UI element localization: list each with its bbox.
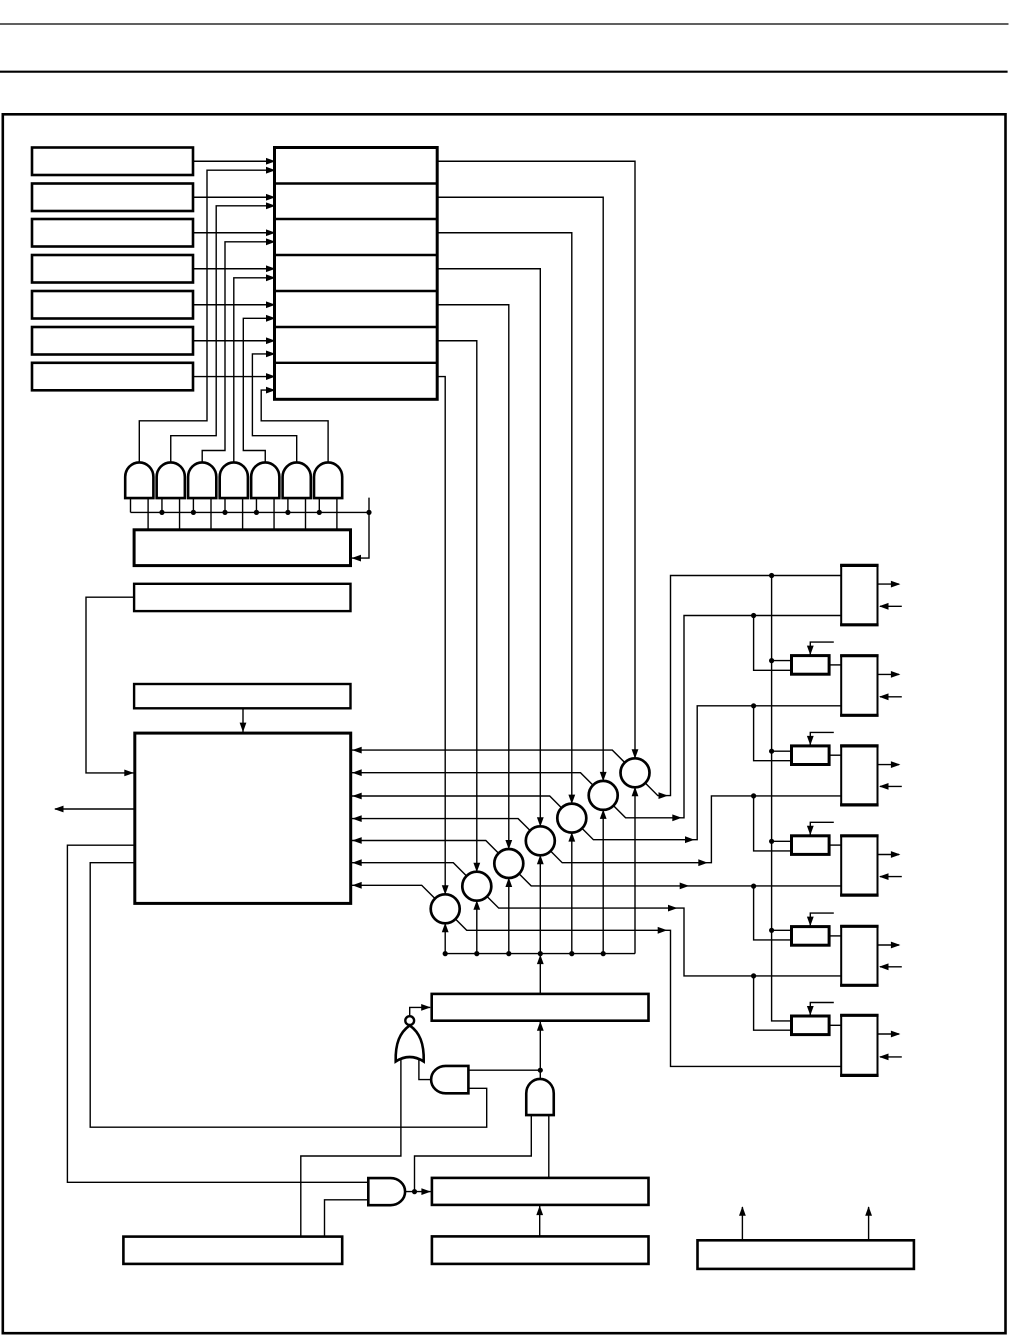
wire node C7 to block D [351,750,625,762]
wire RB row1 output cascade to node C7 [437,161,635,757]
comparator node C4 [526,826,555,855]
comparator node C3 [494,849,523,878]
input register box IN2 [32,184,193,212]
driver box B3 thick top [840,744,879,747]
driver box B5 thick top [840,925,879,928]
arrow box B4 output [891,851,901,858]
junction strobe bus / G3 [191,510,196,515]
arrow into RB row2 [266,194,276,201]
box B6 input wire [880,1056,902,1058]
wire RB row5 output cascade to node C3 [437,305,509,848]
wire V2 drop to latch L5 [754,886,792,940]
arrow into node C7 bottom [632,787,639,797]
and gate G5 [251,462,279,498]
arrow into block D left [124,770,134,777]
driver box B6 [841,1015,877,1075]
wire latch L5 to box B5 [829,935,841,937]
wire node C3 to block D [351,841,499,854]
driver box B6 thick bottom [840,1074,879,1077]
horizontal rule top [0,23,1009,25]
arrow into RB row4 [266,265,276,272]
junction G4 output [412,1189,417,1194]
wire gate G6 output up to RB row6 [252,354,296,463]
box B4 output wire [878,854,900,856]
wire G3 input A to strobe bus [192,498,194,512]
latch L6 strobe stub [810,1003,834,1016]
arrow box B3 output [891,761,901,768]
wire latch L6 to box B6 [829,1024,841,1026]
wire node C5 output riser [582,706,841,840]
wire IN2 to RB row2 [193,196,275,198]
arrow box B4 input [879,873,889,880]
arrow latch L3 strobe [807,736,814,746]
arrow latch L4 strobe [807,826,814,836]
wire G3 input B to decode box A [210,498,212,530]
wire G2 input B to decode box A [179,498,181,530]
wire gate G1 output up to RB row1 [139,170,274,462]
wire box E up to bus [539,955,541,994]
register block row divider 1 [275,182,438,184]
box B6 output wire [878,1033,900,1035]
arrow on node C6 output [672,814,682,821]
arrow on node C2 output [668,905,678,912]
wire G4 output [405,1191,431,1193]
wire G4 input 2 from box H [325,1200,369,1237]
junction bus / C5 [569,951,574,956]
and gate G1 [125,462,153,498]
arrow latch L2 strobe [807,646,814,656]
comparator node C1 [431,894,460,923]
wire gate G3 output up to RB row3 [202,242,274,463]
arrow into block D from C6 [352,769,362,776]
box B2 input wire [880,696,902,698]
wire G4 input B to decode box A [242,498,244,530]
latch L6 [792,1016,830,1035]
status box G [432,1236,649,1264]
wire G2 input 1 [468,1069,540,1071]
reference box H [123,1237,342,1264]
nor gate N1 body [396,1025,424,1061]
arrow into node C5 top [568,795,575,805]
register block row divider 6 [275,362,438,364]
driver box B3 [841,746,877,805]
arrow into node C2 bottom [473,900,480,910]
arrow on node C4 output [698,859,708,866]
arrow into RB row3 [266,229,276,236]
wire gate G2 output up to RB row2 [171,206,275,463]
wire V2 drop to latch L2 [754,616,792,671]
block D output wire left [55,808,135,810]
wire IN7 to RB row7 [193,376,275,378]
junction V1 / latch L2 [769,658,774,663]
junction strobe bus / select stub [366,510,371,515]
driver box B1 thick bottom [840,623,879,626]
wire node C1 to block D [351,885,435,898]
junction bus / C2 [474,951,479,956]
wire bus up to node C6 [602,811,604,954]
wire IN6 to RB row6 [193,340,275,342]
arrow into RB row6 [266,337,276,344]
wire latch L3 to box B3 [829,754,841,756]
arrow into block D from C3 [352,837,362,844]
junction bus / C4 [538,951,543,956]
box B5 output wire [878,944,900,946]
wire box B to block D input [86,597,134,773]
wire node C4 output riser [551,796,842,863]
arrow box G into box F [536,1206,543,1216]
driver box B2 [841,656,877,716]
wire G7 input B to decode box A [336,498,338,530]
arrow into node C2 top [473,863,480,873]
wire G4 input A to strobe bus [224,498,226,512]
arrow G4 into box F [421,1188,431,1195]
input register box IN5 [32,291,193,319]
box B4 input wire [880,876,902,878]
wire V2 drop to latch L3 [754,706,792,761]
arrow on node C1 output [658,927,668,934]
and gate G3 [188,462,216,498]
wire bus up to node C3 [508,879,510,954]
register block row divider 5 [275,326,438,328]
driver box B5 thick bottom [840,984,879,987]
wire RB row6 output cascade to node C2 [437,341,477,871]
arrow box B2 output [891,671,901,678]
wire IN1 to RB row1 [193,160,275,162]
control logic block D [135,733,351,903]
wire gate G5 output up to RB row5 [243,318,274,462]
arrow on node C5 output [685,836,695,843]
driver box B2 thick bottom [840,714,879,717]
wire bus up to node C5 [571,834,573,954]
wire G1 input A to strobe bus [130,498,132,512]
driver box B2 thick top [840,654,879,657]
wire G6 input B to decode box A [305,498,307,530]
distribution bus wire [445,953,635,955]
arrow into node C1 bottom [442,923,449,933]
junction V1 / latch L5 [769,928,774,933]
arrow into node C6 bottom [600,809,607,819]
arrow into RB row6 lower [266,351,276,358]
and gate G3 [526,1079,554,1115]
arrow into node C3 bottom [505,878,512,888]
wire V2 drop to latch L6 [754,976,792,1030]
arrow into RB row1 lower [266,167,276,174]
arrow box E into bus [537,955,544,965]
arrow into RB row5 [266,301,276,308]
input register box IN7 [32,363,193,391]
wire IN4 to RB row4 [193,268,275,270]
latch L2 [792,656,830,675]
wire V1 to latch L3 [772,750,792,752]
strobe bus wire [131,511,370,513]
arrow latch L5 strobe [807,917,814,927]
box I output wire 1 [741,1207,743,1240]
nor gate N1 bubble [405,1016,414,1025]
wire RB row7 output cascade to node C1 [437,377,445,894]
junction V1 / latch L4 [769,839,774,844]
arrow block D output left [54,806,64,813]
input register box IN3 [32,219,193,247]
arrow into RB row4 lower [266,274,276,281]
junction V2 segment 2 [751,703,756,708]
arrow into RB row5 lower [266,315,276,322]
wire latch L4 to box B4 [829,844,841,846]
input register box IN1 [32,148,193,176]
wire latch L2 to box B2 [829,664,841,666]
driver box B4 thick bottom [840,893,879,896]
box B2 output wire [878,673,900,675]
wire node C1 output riser [455,919,841,1066]
wire gate G7 output up to RB row7 [261,390,328,462]
arrow box B1 input [879,603,889,610]
arrow box I output 2 [865,1206,872,1216]
arrow into node C3 top [505,840,512,850]
wire G6 input A to strobe bus [287,498,289,512]
latch L2 strobe stub [810,642,834,655]
wire G3 output to box E [539,1022,541,1079]
wire IN3 to RB row3 [193,232,275,234]
arrow into node C6 top [600,772,607,782]
arrow box B5 output [891,942,901,949]
box B3 input wire [880,785,902,787]
output box I [698,1240,914,1269]
wire block D to gate G4 input [67,845,368,1182]
box B3 output wire [878,764,900,766]
latch L5 strobe stub [810,913,834,926]
wire gate G4 output up to RB row4 [234,278,275,463]
junction bus / C1 [443,951,448,956]
wire RB row2 output cascade to node C6 [437,197,603,780]
wire block D to gate G2 input [90,863,487,1127]
arrow on node C7 output [659,792,669,799]
driver box B5 [841,926,877,985]
box I output wire 2 [868,1207,870,1240]
and gate G7 [314,462,342,498]
arrow into block D from C4 [352,815,362,822]
wire V1 to latch L2 [772,660,792,662]
select line V1 [772,576,792,1021]
driver box B1 thick top [840,564,879,567]
wire bus up to node C2 [476,902,478,954]
register file block RB outline [275,148,438,400]
wire G5 input A to strobe bus [255,498,257,512]
arrow latch L6 strobe [807,1006,814,1016]
input register box IN6 [32,327,193,355]
wire bus up to node C4 [539,856,541,953]
arrow into RB row7 [266,373,276,380]
arrow into RB row1 [266,158,276,165]
horizontal rule 2 [0,71,1008,73]
wire node C6 to block D [351,773,593,785]
wire box G up to box F [539,1206,541,1237]
junction V2 segment 1 [751,613,756,618]
junction V2 segment 3 [751,793,756,798]
arrow box B6 output [891,1031,901,1038]
wire RB row3 output cascade to node C5 [437,233,572,803]
and gate G2 [157,462,185,498]
control box B [134,584,350,611]
register block row divider 3 [275,254,438,256]
comparator node C5 [557,804,586,833]
junction V1 start [769,573,774,578]
arrow into box A [352,555,362,562]
latch L4 strobe stub [810,822,834,835]
arrow into RB row7 lower [266,387,276,394]
wire G3 input 2 from box F [548,1115,550,1178]
wire G7 input A to strobe bus [318,498,320,512]
register block row divider 4 [275,290,438,292]
junction bus / C3 [506,951,511,956]
junction V2 segment 5 [751,973,756,978]
comparator node C7 [621,758,650,787]
arrow into block D from C5 [352,793,362,800]
wire G2 input A to strobe bus [161,498,163,512]
box B1 input wire [880,605,902,607]
wire node C4 to block D [351,819,530,831]
driver box B4 thick top [840,834,879,837]
wire node C2 to block D [351,863,467,876]
junction V1 / latch L3 [769,749,774,754]
junction strobe bus / G7 [317,510,322,515]
junction strobe bus / G2 [159,510,164,515]
wire N1 input A from box H [301,1058,401,1237]
arrow into block D from C1 [352,882,362,889]
arrow box B3 input [879,783,889,790]
junction strobe bus / G6 [285,510,290,515]
arrow on node C3 output [680,883,690,890]
register block row divider 2 [275,218,438,220]
wire box C down to block D [242,708,244,732]
arrow box B1 output [891,581,901,588]
comparator node C2 [462,872,491,901]
junction G3 output / G2 input [538,1068,543,1073]
holding box E [432,994,649,1021]
wire N1 output to box E [410,1007,431,1016]
junction strobe bus / G4 [222,510,227,515]
wire node C7 output riser [645,576,841,796]
arrow into block D from C7 [352,747,362,754]
arrow box B6 input [879,1054,889,1061]
driver box B1 [841,565,877,624]
arrow box B5 input [879,963,889,970]
wire bus up to node C7 [634,788,636,953]
box B1 output wire [878,583,900,585]
wire V2 drop to latch L4 [754,796,792,851]
wire node C3 output to box B4 [519,874,841,886]
wire G1 input B to decode box A [147,498,149,530]
wire node C2 output riser [487,896,841,975]
box B5 input wire [880,966,902,968]
and gate G2 [431,1066,468,1093]
arrow into node C4 bottom [537,855,544,865]
driver box B4 [841,836,877,895]
input register box IN4 [32,255,193,283]
wire node C6 output riser [613,616,841,818]
arrow G3 into box E [537,1021,544,1030]
wire V1 to latch L5 [772,929,792,931]
wire node C5 to block D [351,796,562,808]
arrow box B2 input [879,693,889,700]
latch L3 strobe stub [810,732,834,745]
wire G3 input 1 from G4 output [415,1115,532,1193]
latch L3 [792,746,830,765]
control box C [134,684,350,708]
and gate G4 [220,462,248,498]
and gate G4 [368,1178,405,1205]
arrow box I output 1 [739,1206,746,1216]
arrow into RB row3 lower [266,238,276,245]
arrow into node C4 top [537,817,544,827]
junction V2 segment 4 [751,884,756,889]
and gate G6 [283,462,311,498]
comparator node C6 [589,781,618,810]
select stub wire into box A [351,498,370,558]
latch L5 [792,927,830,946]
arrow into node C5 bottom [568,832,575,842]
driver box B6 thick top [840,1014,879,1017]
wire bus up to node C1 [444,924,446,953]
junction strobe bus / G5 [254,510,259,515]
wire G5 input B to decode box A [273,498,275,530]
latch L4 [792,836,830,855]
wire N1 input B from G2 [419,1058,431,1080]
decoder box A [134,530,350,566]
wire IN5 to RB row5 [193,304,275,306]
arrow into RB row2 lower [266,202,276,209]
arrow into block D from C2 [352,859,362,866]
driver box B3 thick bottom [840,803,879,806]
arrow N1 into box E [421,1004,431,1011]
status box F [432,1178,649,1205]
wire RB row4 output cascade to node C4 [437,269,540,826]
arrow into node C1 top [442,885,449,895]
arrow into node C7 top [632,749,639,759]
arrow box C into block D [240,723,247,733]
junction bus / C6 [601,951,606,956]
wire V1 to latch L4 [772,840,792,842]
